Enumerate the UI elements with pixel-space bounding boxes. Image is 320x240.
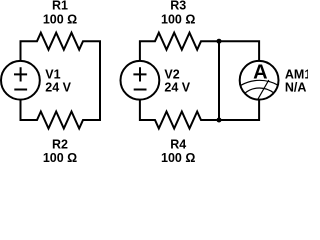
svg-text:V2: V2 bbox=[164, 68, 179, 82]
svg-text:R3: R3 bbox=[170, 0, 186, 13]
svg-text:R1: R1 bbox=[52, 0, 68, 13]
svg-text:R2: R2 bbox=[52, 137, 68, 151]
svg-text:N/A: N/A bbox=[285, 81, 307, 95]
svg-text:R4: R4 bbox=[170, 137, 186, 151]
svg-text:100 Ω: 100 Ω bbox=[161, 13, 195, 27]
svg-text:100 Ω: 100 Ω bbox=[161, 151, 195, 164]
svg-text:100 Ω: 100 Ω bbox=[43, 13, 77, 27]
svg-text:100 Ω: 100 Ω bbox=[43, 151, 77, 164]
svg-text:A: A bbox=[253, 62, 267, 84]
svg-text:24 V: 24 V bbox=[164, 81, 190, 95]
svg-text:AM1: AM1 bbox=[285, 68, 308, 82]
svg-text:V1: V1 bbox=[45, 68, 60, 82]
svg-text:24 V: 24 V bbox=[45, 81, 71, 95]
